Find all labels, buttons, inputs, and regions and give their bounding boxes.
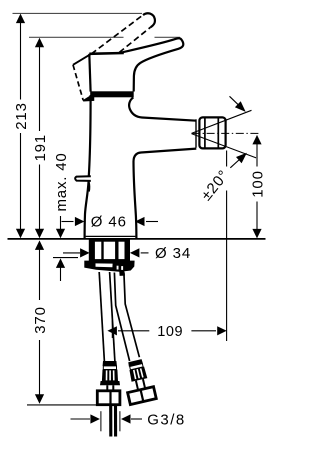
svg-text:109: 109 <box>157 324 183 340</box>
reference line top (213 level) <box>13 12 143 14</box>
lower angle arrow <box>230 160 239 168</box>
dimension diameter 46 <box>62 221 74 223</box>
dimension 109 <box>111 321 113 339</box>
spout centerline <box>192 132 260 134</box>
mounting clamp (horseshoe washer) <box>84 261 134 276</box>
vertical hose <box>99 272 104 362</box>
mounting deck line <box>8 238 266 240</box>
G3/8 tube <box>109 405 112 437</box>
svg-text:Ø 46: Ø 46 <box>91 214 127 231</box>
svg-text:370: 370 <box>32 306 49 333</box>
svg-text:191: 191 <box>32 134 49 161</box>
dimension 191 <box>39 42 41 235</box>
faucet body <box>85 95 197 239</box>
left tab <box>75 176 91 191</box>
dimension 370 <box>35 240 44 250</box>
+-20 degree lines <box>192 110 252 133</box>
svg-text:max. 40: max. 40 <box>53 153 70 212</box>
vertical hose crimp ferrule <box>100 361 120 385</box>
reference line (191 level) <box>29 36 124 38</box>
dimension 100 <box>252 135 261 145</box>
spout groove <box>195 119 197 147</box>
dimension diameter 34 <box>63 252 80 254</box>
svg-text:G3/8: G3/8 <box>147 411 186 428</box>
370 bottom reference line <box>27 404 98 406</box>
escutcheon nut below deck <box>90 241 129 261</box>
compression nut <box>97 391 120 405</box>
angled hose <box>114 273 129 362</box>
upper angle arrow <box>230 96 239 104</box>
neck to nut <box>106 385 108 391</box>
dimension 213 <box>20 17 22 235</box>
raised handle (dashed) <box>119 27 150 52</box>
svg-text:Ø 34: Ø 34 <box>155 245 191 262</box>
dimension G3/8 <box>71 418 91 420</box>
svg-text:213: 213 <box>13 102 30 129</box>
joint band (handle/body joint) <box>90 91 134 97</box>
aerator <box>199 117 225 148</box>
handle stem <box>89 52 124 55</box>
angled hose end fitting <box>121 358 156 405</box>
svg-text:100: 100 <box>249 170 266 197</box>
base bottom rim <box>86 235 136 237</box>
lever handle (rest position) <box>120 38 184 91</box>
extension line at aerator tip <box>226 151 228 167</box>
